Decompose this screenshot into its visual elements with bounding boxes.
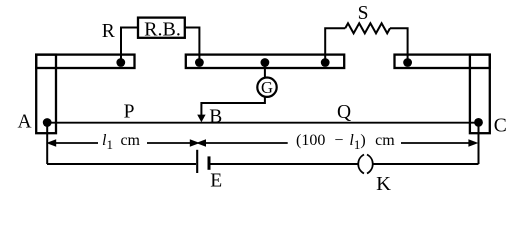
wire R.B. left lead to left strip terminal: [121, 28, 138, 62]
wire R.B. right lead to middle strip terminal: [185, 28, 200, 62]
svg-text:R.B.: R.B.: [144, 19, 181, 41]
galvanometer G: [257, 78, 276, 98]
dimension (100 - l1) cm: [196, 132, 478, 152]
wire galvanometer to jockey arrow at B: [201, 97, 265, 116]
dimension l1 cm: [46, 132, 200, 152]
wire battery row left (A to cell E): [47, 163, 196, 165]
terminal dot on middle strip (to S): [321, 58, 330, 67]
battery cell E: [197, 150, 209, 173]
svg-text:B: B: [209, 107, 222, 128]
copper strip right horizontal: [395, 55, 490, 68]
svg-text:E: E: [210, 171, 222, 192]
resistance box R.B.: [138, 18, 185, 41]
jockey arrowhead at B: [197, 115, 205, 123]
wire resistor S right lead to right strip terminal: [390, 28, 408, 61]
wire key to C down-wire: [373, 163, 479, 165]
wire battery to key: [210, 163, 357, 165]
wire from C down to key row: [478, 122, 480, 164]
bridge wire A to C: [47, 122, 478, 124]
terminal dot on left strip: [116, 58, 125, 67]
terminal dot on right strip (from S): [403, 58, 412, 67]
copper strip left vertical (end piece at A): [36, 55, 56, 134]
svg-text:C: C: [494, 115, 507, 136]
key K (plug key gap): [358, 155, 373, 174]
wire middle strip terminal down to galvanometer: [264, 62, 266, 77]
svg-text:R: R: [102, 21, 115, 42]
wire from A down to battery row: [46, 123, 48, 165]
svg-text:A: A: [18, 112, 32, 133]
terminal dot on middle strip (from R.B.): [195, 58, 204, 67]
svg-text:S: S: [358, 3, 369, 24]
node A terminal dot: [43, 118, 52, 127]
svg-text:P: P: [124, 102, 135, 123]
wire resistor S left lead to middle strip terminal: [325, 28, 345, 61]
copper strip left horizontal: [36, 55, 134, 68]
terminal dot on middle strip (to galvanometer): [261, 58, 270, 67]
svg-text:Q: Q: [337, 102, 351, 123]
copper strip middle: [186, 55, 344, 68]
resistor S zigzag: [345, 23, 390, 33]
svg-text:G: G: [261, 78, 273, 97]
svg-text:K: K: [376, 173, 391, 194]
node C terminal dot: [474, 118, 483, 127]
copper strip right vertical (end piece at C): [470, 55, 490, 134]
